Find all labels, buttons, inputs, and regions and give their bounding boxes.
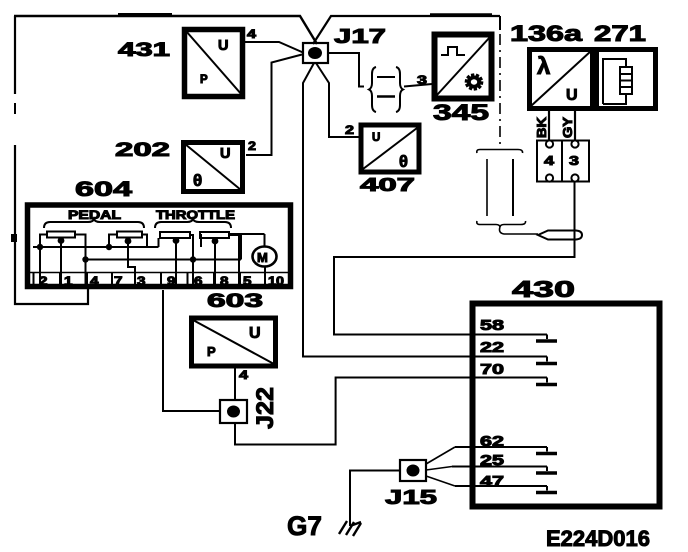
svg-text:THROTTLE: THROTTLE <box>156 208 235 222</box>
svg-text:7: 7 <box>114 274 123 288</box>
wire: J15 to ground G7 <box>350 471 400 527</box>
svg-text:10: 10 <box>268 274 284 288</box>
svg-text:5: 5 <box>243 274 252 288</box>
604 internal wiring <box>33 234 265 287</box>
604 pin numbers <box>39 274 284 288</box>
svg-text:4: 4 <box>90 274 99 288</box>
pot1 right to pin 4 <box>75 235 86 288</box>
junction dot on bus B at pot3 right <box>190 256 196 262</box>
component 604 pedal/throttle unit box <box>28 205 291 287</box>
component 271 heater box <box>597 50 656 109</box>
pot2 left to bus A <box>109 235 117 248</box>
svg-text:603: 603 <box>207 291 263 312</box>
svg-text:BK: BK <box>534 116 549 138</box>
svg-text:U: U <box>566 87 578 104</box>
svg-text:6: 6 <box>194 274 203 288</box>
svg-text:430: 430 <box>512 276 575 302</box>
604 pin row top line <box>30 272 288 274</box>
svg-text:407: 407 <box>360 174 415 195</box>
svg-text:202: 202 <box>115 140 170 161</box>
motor supply rail <box>230 233 265 235</box>
rail down to pin 5 <box>238 234 240 287</box>
terminal 22 <box>546 357 548 362</box>
svg-text:271: 271 <box>594 21 646 46</box>
svg-text:GY: GY <box>560 117 575 138</box>
connector block pins 4 and 3 <box>537 140 589 181</box>
wire: J17 to 431 pin 4 <box>245 42 303 53</box>
component 431 box <box>185 30 243 97</box>
svg-text:2: 2 <box>345 123 354 137</box>
shield top bracket <box>477 150 523 154</box>
svg-text:J17: J17 <box>334 26 386 48</box>
wire: GY stub from 136a U pin <box>574 110 576 140</box>
junction dot on bus A at pot2 left <box>106 244 112 250</box>
svg-text:3: 3 <box>569 153 579 168</box>
wire: J17 right to inline connector <box>328 53 364 87</box>
svg-text:47: 47 <box>480 473 504 490</box>
pot4 wiper to pin 8 <box>214 243 216 287</box>
lambda probe tip symbol <box>538 231 582 240</box>
wire+terminal 47 <box>455 486 547 491</box>
junction J17 box with solder dot <box>303 43 328 63</box>
wire+terminal 25 <box>452 467 547 472</box>
svg-text:U: U <box>220 146 230 162</box>
potentiometer track P1 (pedal) <box>47 232 75 238</box>
svg-text:2: 2 <box>248 139 256 153</box>
svg-text:J22: J22 <box>252 387 279 429</box>
svg-text:P: P <box>207 344 216 359</box>
shield bottom bracket <box>477 221 526 227</box>
potentiometer track P2 (pedal) <box>117 232 142 238</box>
pot4 right riser <box>229 235 241 260</box>
svg-text:4: 4 <box>544 153 555 168</box>
junction J22 box with solder dot <box>220 400 247 423</box>
svg-text:P: P <box>200 74 208 86</box>
svg-text:4: 4 <box>239 368 248 382</box>
bus A <box>33 246 159 248</box>
svg-text:70: 70 <box>480 361 504 378</box>
svg-text:345: 345 <box>433 100 489 125</box>
svg-text:8: 8 <box>220 274 229 288</box>
potentiometer track P4 (throttle) <box>200 232 229 238</box>
svg-text:λ: λ <box>537 53 550 80</box>
svg-text:G7: G7 <box>287 511 322 541</box>
motor bottom lead to pin 10 <box>264 266 266 287</box>
brace over pedal pots <box>44 219 144 228</box>
motor top lead <box>264 234 266 247</box>
svg-text:E224D016: E224D016 <box>546 526 650 551</box>
pot3 left to bus A <box>158 238 160 247</box>
svg-text:604: 604 <box>75 178 133 201</box>
motor M symbol <box>253 247 277 267</box>
wiper dot P3 <box>173 237 180 244</box>
wire+terminal 62 <box>455 447 547 452</box>
wire: J17 down-left then to 430 pin 22 <box>303 63 547 357</box>
svg-text:136a: 136a <box>510 21 583 46</box>
pot1 left to pin 2 <box>40 235 47 288</box>
svg-text:2: 2 <box>39 274 48 288</box>
pot3 right to pin 6 <box>190 235 193 287</box>
svg-text:3: 3 <box>417 73 427 87</box>
wire: top frame from left border to J17 <box>14 15 317 44</box>
svg-text:U: U <box>218 38 228 54</box>
pot1 wiper to pin 1 <box>60 242 62 287</box>
wire: J17 down-right then to 407 pin 2 <box>316 63 359 137</box>
pot3 wiper to pin 9 <box>175 242 177 287</box>
svg-text:1: 1 <box>64 274 73 288</box>
svg-text:M: M <box>257 250 268 265</box>
component 136a lambda sensor box <box>530 50 593 109</box>
potentiometer track P3 (throttle) <box>160 232 190 238</box>
wire: BK stub from 136a <box>548 110 550 140</box>
svg-text:J15: J15 <box>385 487 437 509</box>
wiper dot P1 <box>58 237 65 244</box>
pot4 left stub <box>200 235 201 247</box>
wiper dot P2 <box>125 238 132 245</box>
wire: J17 to 202 pin 2 <box>246 55 302 156</box>
component 603 box <box>192 318 276 366</box>
svg-text:U: U <box>372 132 380 144</box>
svg-text:θ: θ <box>193 171 202 190</box>
pot2 wiper to pin 7 <box>128 243 135 287</box>
wire: 604 pin 9 down to J22 <box>163 290 220 411</box>
ground symbol G7 <box>339 521 361 536</box>
pot2 right stub <box>142 235 147 248</box>
wire: J22 down, right, up to 430 pin 70 <box>235 378 547 445</box>
604 pin separators <box>34 273 266 288</box>
wire: left frame down to 604 pin 4 <box>14 16 16 94</box>
wire: 603 pin 4 down to J22 <box>234 367 236 400</box>
wire: connector pin 3 down, left, down to 430 pin 58 <box>334 182 575 335</box>
svg-text:3: 3 <box>137 274 146 288</box>
junction dot on bus A at pot1 left <box>37 244 43 250</box>
wire: connector to 345 pin 3 <box>404 84 432 87</box>
shield screen lines <box>486 159 488 216</box>
component 430 ECU box <box>473 304 660 507</box>
brace over throttle pots <box>155 219 231 228</box>
svg-text:22: 22 <box>480 339 504 356</box>
component 202 box <box>184 143 243 192</box>
wire: J15 fan-out to pins 62 25 47 <box>426 447 455 464</box>
wire: J17 up-right to top line and right to shield drain <box>313 16 500 44</box>
wiper dot P4 <box>212 238 219 245</box>
component 345 box <box>435 35 492 99</box>
junction dot on bus B at pot1 right <box>82 256 88 262</box>
gear symbol inside 345 <box>465 73 484 91</box>
junction J15 box with solder dot <box>400 460 426 481</box>
component 407 box <box>361 125 419 172</box>
svg-text:4: 4 <box>247 27 256 41</box>
svg-text:431: 431 <box>118 40 171 61</box>
probe tail from shield to sensor tip <box>500 227 539 234</box>
inline connector braces near J17 <box>369 67 403 112</box>
bus B <box>86 259 242 261</box>
terminal 70 <box>546 378 548 383</box>
svg-text:9: 9 <box>167 274 176 288</box>
terminal 58 <box>546 335 548 340</box>
svg-text:58: 58 <box>480 317 504 334</box>
wire: shield drain dashed vertical <box>499 16 501 30</box>
svg-text:θ: θ <box>399 153 408 171</box>
svg-text:U: U <box>249 325 261 342</box>
